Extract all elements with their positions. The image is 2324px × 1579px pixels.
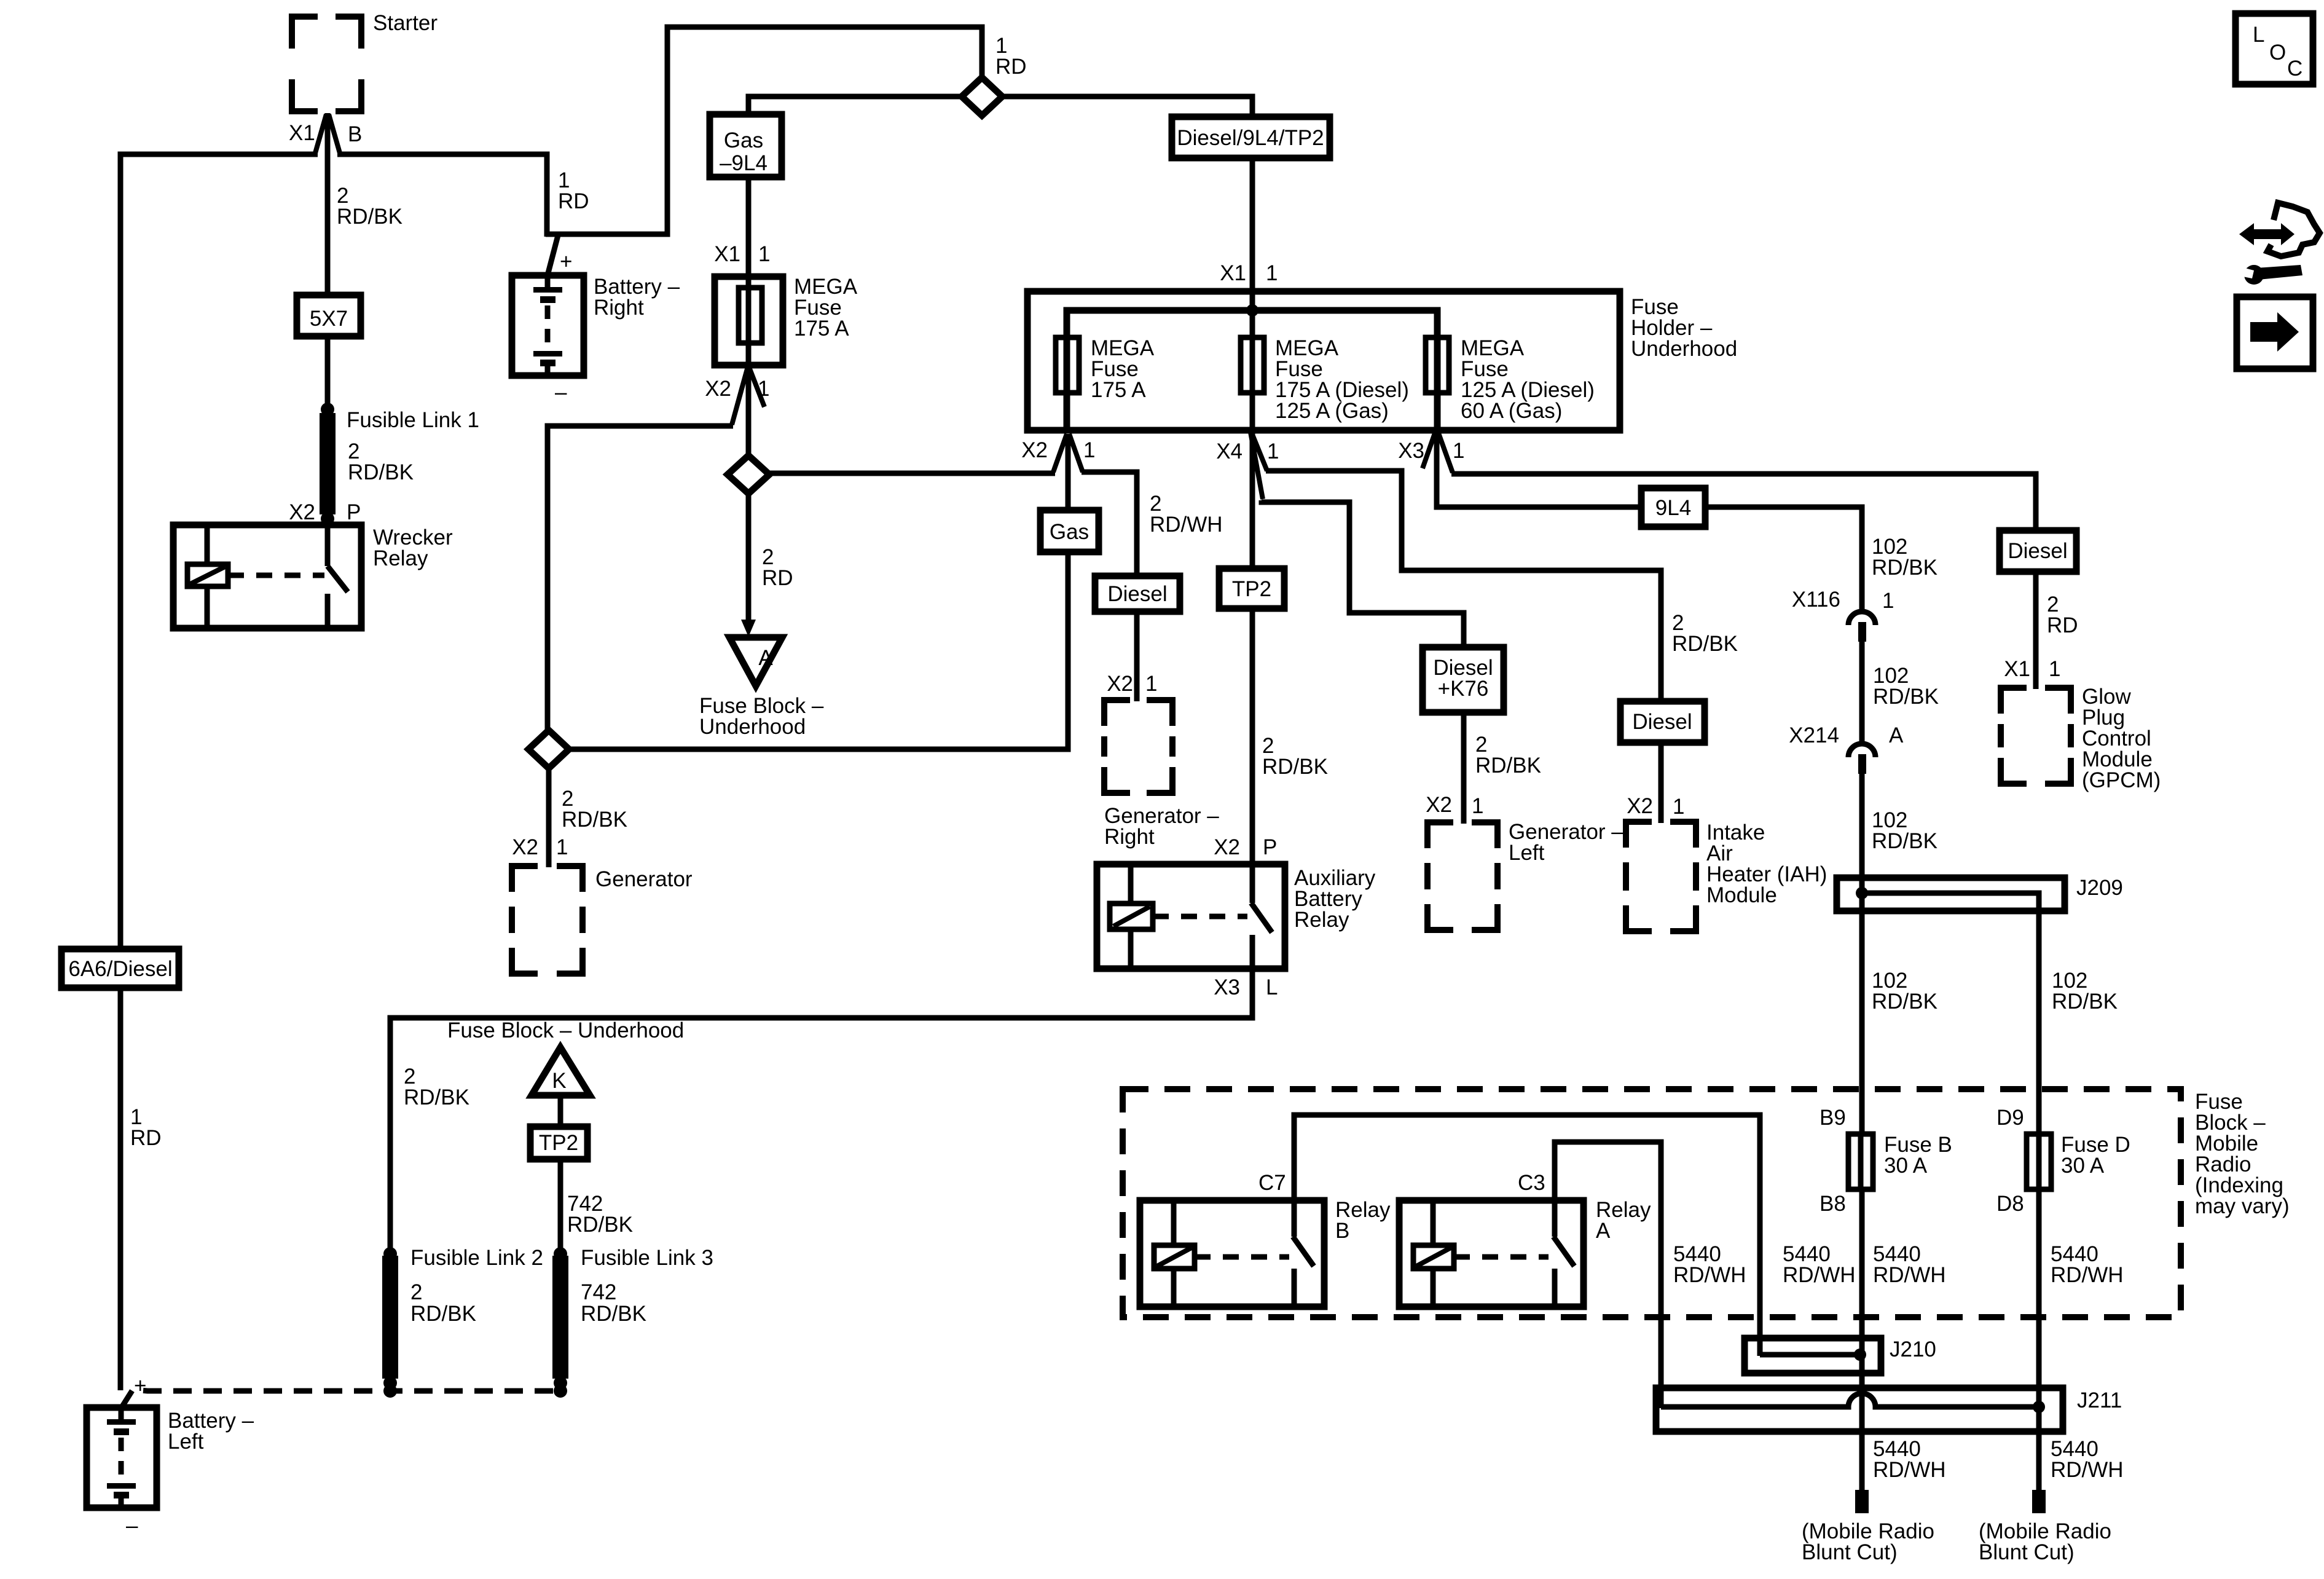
wire: starter B right branch to battery-right corner: [337, 154, 547, 237]
svg-text:RD/BK: RD/BK: [567, 1213, 633, 1237]
svg-text:RD/BK: RD/BK: [410, 1302, 476, 1326]
svg-text:Generator: Generator: [595, 867, 693, 891]
svg-text:Underhood: Underhood: [699, 715, 806, 739]
blunt cut terminal B: [1855, 1490, 1869, 1513]
box fuse holder inner: [1067, 310, 1437, 430]
svg-text:RD/BK: RD/BK: [562, 808, 627, 832]
diagnostic icon: double arrow: [2239, 223, 2295, 245]
battery right symbol: [545, 275, 551, 289]
svg-text:175 A: 175 A: [1091, 378, 1146, 402]
svg-text:K: K: [552, 1069, 566, 1093]
wire: diagonal into battery-right plus: [548, 235, 558, 275]
IAH module dashed box: [1626, 822, 1696, 931]
svg-text:Diesel: Diesel: [1632, 710, 1692, 734]
wire: fuse holder X1 feed down through fuse2: [1250, 158, 1255, 430]
svg-text:X2: X2: [1021, 438, 1048, 462]
svg-text:A: A: [1596, 1219, 1611, 1243]
wire: fuse1 X2 right leg to gen-right riser: [1082, 472, 1137, 701]
svg-text:+: +: [560, 250, 572, 274]
aux battery relay box: [1097, 864, 1285, 969]
blunt cut terminal D: [2032, 1490, 2046, 1513]
svg-text:RD/WH: RD/WH: [1873, 1263, 1946, 1287]
svg-text:RD/WH: RD/WH: [2051, 1458, 2124, 1482]
J211 junction box: [1656, 1388, 2063, 1431]
wire: Diesel(IAH) down to IAH module: [1659, 742, 1664, 823]
svg-text:1: 1: [1472, 794, 1483, 818]
svg-text:RD/BK: RD/BK: [337, 205, 402, 229]
svg-text:X214: X214: [1789, 723, 1839, 747]
svg-text:Fusible Link 2: Fusible Link 2: [410, 1246, 543, 1270]
fuse element 3 (MEGA 125/60): [1426, 337, 1449, 393]
svg-text:P: P: [347, 500, 361, 524]
svg-text:Underhood: Underhood: [1631, 337, 1737, 361]
svg-text:RD/BK: RD/BK: [1672, 632, 1738, 656]
svg-text:C7: C7: [1258, 1171, 1286, 1195]
svg-text:1: 1: [1673, 795, 1684, 819]
svg-text:Diesel/9L4/TP2: Diesel/9L4/TP2: [1177, 126, 1324, 150]
battery left box: [87, 1408, 157, 1508]
svg-text:1: 1: [1145, 672, 1157, 696]
svg-text:RD: RD: [995, 55, 1027, 79]
generator dashed box: [512, 866, 583, 974]
battery left symbol: [119, 1408, 124, 1421]
box TP2 (bottom): [530, 1127, 587, 1159]
box 9L4: [1641, 488, 1705, 527]
wire: fuse D down to blunt cut: [2036, 1189, 2042, 1490]
svg-text:6A6/Diesel: 6A6/Diesel: [68, 957, 172, 981]
svg-text:Gas: Gas: [1050, 520, 1089, 544]
wire: J211 bar with hop over fuse-B wire and junction dot at D: [1661, 1393, 2039, 1407]
svg-text:Left: Left: [1509, 841, 1545, 865]
box Diesel (GPCM chain): [2000, 530, 2076, 572]
box fuse holder underhood (outer): [1027, 291, 1620, 430]
svg-text:L: L: [1266, 975, 1278, 999]
pin arrow: X3: [1423, 431, 1453, 473]
svg-text:D9: D9: [1996, 1106, 2024, 1130]
svg-text:RD: RD: [2047, 613, 2078, 637]
svg-text:Blunt Cut): Blunt Cut): [1802, 1540, 1898, 1564]
connector X214 arc: [1848, 744, 1875, 757]
fuse element 2 (MEGA 175/125): [1241, 337, 1264, 393]
wrecker relay switch: [328, 525, 348, 628]
diamond junction (1 RD top): [962, 77, 1002, 116]
svg-text:1: 1: [1453, 439, 1464, 463]
GPCM dashed box: [2001, 688, 2071, 784]
J210 junction box: [1745, 1338, 1881, 1373]
wire: diamond1 right run to Diesel/9L4/TP2 box: [1002, 96, 1252, 118]
fusible link 1 bar: [320, 413, 336, 514]
svg-text:RD/BK: RD/BK: [404, 1085, 469, 1109]
svg-text:X2: X2: [512, 835, 538, 859]
box Diesel+K76: [1423, 647, 1504, 712]
wire: X4 first output to Diesel (IAH chain): [1266, 471, 1661, 703]
svg-text:X3: X3: [1398, 439, 1424, 463]
fuse B element: [1848, 1134, 1873, 1189]
svg-text:30 A: 30 A: [1884, 1154, 1928, 1178]
diagnostic icon: wrench: [2256, 265, 2302, 280]
pin arrow: starter B: [315, 114, 340, 153]
svg-text:RD/BK: RD/BK: [348, 460, 414, 484]
wire: relay B switch pin up and over to J210: [1294, 1115, 1760, 1356]
svg-text:RD/WH: RD/WH: [1673, 1263, 1746, 1287]
svg-text:J210: J210: [1890, 1337, 1936, 1361]
svg-text:X1: X1: [289, 121, 315, 145]
svg-text:RD: RD: [130, 1126, 162, 1150]
wire: diamond1 left run to Gas-9L4 box: [748, 96, 962, 116]
svg-text:RD/BK: RD/BK: [1872, 556, 1937, 580]
diagnostic icon: vehicle outline: [2267, 203, 2320, 256]
wrecker relay actuation dashes: [228, 573, 324, 578]
svg-text:+K76: +K76: [1438, 677, 1489, 701]
svg-text:X3: X3: [1214, 975, 1240, 999]
svg-text:Fuse Block – Underhood: Fuse Block – Underhood: [447, 1018, 684, 1042]
fusible link 2 bar: [382, 1256, 398, 1379]
wire: X116 to X214: [1859, 642, 1865, 744]
wire: into battery-left plus: [118, 1387, 124, 1390]
wire: mega fuse X2 center to diamond2: [746, 369, 752, 457]
aux relay coil branch: [1128, 864, 1134, 969]
svg-text:RD/BK: RD/BK: [1872, 990, 1937, 1014]
box Diesel (IAH chain): [1620, 701, 1705, 742]
wire: Gas-9L4 down through MEGA fuse to X2 pin: [746, 177, 752, 369]
svg-text:B9: B9: [1820, 1106, 1846, 1130]
fuse block mobile radio dashed box: [1123, 1089, 2181, 1317]
svg-text:RD/BK: RD/BK: [581, 1302, 646, 1326]
fuse element 1 (MEGA 175A): [1056, 337, 1079, 393]
svg-text:J209: J209: [2076, 876, 2123, 900]
svg-text:RD/BK: RD/BK: [1873, 685, 1939, 709]
svg-text:C: C: [2287, 57, 2302, 81]
box MEGA fuse (standalone): [715, 277, 783, 365]
svg-text:A: A: [758, 646, 773, 670]
junction dot J209: [1856, 887, 1868, 899]
svg-text:60 A (Gas): 60 A (Gas): [1461, 399, 1562, 423]
svg-text:RD/BK: RD/BK: [2052, 990, 2118, 1014]
svg-text:X2: X2: [1214, 835, 1240, 859]
svg-text:RD/BK: RD/BK: [1475, 754, 1541, 778]
svg-text:1: 1: [758, 377, 769, 401]
generator-left dashed box: [1427, 822, 1498, 930]
svg-text:D8: D8: [1996, 1192, 2024, 1216]
wire: battery-right plus junction, 1RD riser, top run to diamond: [546, 27, 982, 234]
connector X116 arc: [1848, 612, 1875, 625]
J209 junction box: [1837, 878, 2065, 911]
dashed battery equalize wire: [122, 1390, 560, 1406]
wire: J209 bar to fuse D riser: [1862, 893, 2039, 1135]
relay A switch: [1553, 1200, 1574, 1307]
arrowhead into triangle A: [741, 620, 756, 637]
aux relay actuation dashes: [1153, 914, 1247, 919]
svg-text:Right: Right: [594, 296, 644, 320]
wire: 9L4 box to X116 riser: [1706, 507, 1862, 612]
svg-text:175 A: 175 A: [794, 317, 849, 341]
box Gas -9L4: [710, 114, 782, 177]
svg-text:X116: X116: [1792, 588, 1840, 612]
wire: X214 down through J209 to fuse B: [1859, 774, 1865, 1135]
svg-text:X2: X2: [1107, 672, 1133, 696]
svg-text:P: P: [1263, 835, 1277, 859]
relay A coil branch: [1431, 1200, 1436, 1307]
svg-text:C3: C3: [1518, 1171, 1545, 1195]
svg-text:RD/WH: RD/WH: [1873, 1458, 1946, 1482]
wire: diamond2 right to fuse1-X2 leg junction: [769, 471, 1055, 476]
svg-text:1: 1: [1882, 589, 1894, 613]
svg-text:X1: X1: [714, 242, 740, 266]
relay B coil: [1154, 1245, 1195, 1269]
svg-text:Fusible Link 3: Fusible Link 3: [581, 1246, 713, 1270]
wire: X3 right leg horizontal to Diesel (GPCM chain): [1451, 474, 2036, 532]
svg-text:30 A: 30 A: [2061, 1154, 2105, 1178]
svg-text:Diesel: Diesel: [2008, 539, 2067, 563]
triangle A (fuse block underhood): [729, 637, 782, 686]
svg-text:5X7: 5X7: [310, 307, 348, 331]
battery right box: [512, 275, 584, 376]
svg-text:742: 742: [581, 1280, 616, 1304]
svg-text:1: 1: [2049, 657, 2060, 681]
svg-text:RD/WH: RD/WH: [1150, 513, 1223, 537]
relay A box: [1399, 1200, 1584, 1307]
connector X116 tab: [1858, 622, 1866, 642]
connector X214 tab: [1858, 754, 1866, 774]
svg-text:1: 1: [1267, 439, 1279, 463]
svg-text:RD/BK: RD/BK: [1262, 755, 1328, 779]
box Diesel/9L4/TP2: [1172, 117, 1330, 158]
svg-text:X4: X4: [1216, 439, 1242, 463]
aux relay switch: [1251, 864, 1272, 969]
pin arrow: X4: [1250, 431, 1267, 499]
pin arrow: fuse1 X2: [1053, 434, 1083, 472]
wire: fuse B down through J210/J211 to blunt cut: [1859, 1189, 1865, 1490]
fusible link 3 bar: [552, 1256, 568, 1379]
svg-text:X2: X2: [1426, 793, 1452, 817]
svg-text:(GPCM): (GPCM): [2082, 768, 2161, 792]
svg-text:125 A (Gas): 125 A (Gas): [1275, 399, 1389, 423]
svg-text:Gas: Gas: [724, 128, 763, 152]
wire: triangle K to TP2 to fusible link 3: [558, 1095, 563, 1254]
wrecker relay coil: [187, 564, 228, 586]
svg-text:L: L: [2253, 23, 2264, 47]
svg-text:B: B: [1335, 1219, 1349, 1243]
aux relay coil: [1110, 904, 1153, 929]
wire: J210 bar with junction dot: [1760, 1352, 1860, 1358]
wrecker relay box: [173, 525, 361, 628]
svg-text:X2: X2: [1627, 794, 1653, 818]
relay B box: [1140, 1200, 1324, 1307]
svg-text:RD/WH: RD/WH: [2051, 1263, 2124, 1287]
wire: Diesel(GPCM) down to GPCM module: [2033, 572, 2039, 689]
wire: fuse1 X2 center down through Gas box to diamond3 horizontal: [568, 434, 1068, 749]
svg-text:X1: X1: [1220, 261, 1246, 285]
svg-text:X2: X2: [705, 377, 731, 401]
svg-text:1: 1: [556, 835, 568, 859]
svg-text:–: –: [555, 380, 567, 404]
svg-text:Starter: Starter: [373, 11, 438, 35]
wire: aux relay X3/L out, long run left, down to fusible link 2: [390, 969, 1252, 1254]
svg-text:1: 1: [1266, 261, 1278, 285]
svg-text:TP2: TP2: [539, 1131, 578, 1155]
svg-text:Relay: Relay: [1294, 908, 1349, 932]
wire: X2 horizontal to left riser down to diamond3: [548, 426, 733, 732]
svg-text:J211: J211: [2077, 1388, 2122, 1412]
svg-text:Diesel: Diesel: [1107, 582, 1167, 606]
svg-text:1: 1: [1083, 438, 1095, 462]
box 5X7: [297, 295, 361, 336]
svg-text:RD/BK: RD/BK: [1872, 829, 1937, 853]
svg-text:X1: X1: [2004, 657, 2030, 681]
pin arrow: mega fuse X2: [732, 369, 764, 425]
wire: relay A switch pin up and over to J211: [1555, 1142, 1661, 1408]
relay B actuation dashes: [1195, 1254, 1289, 1260]
svg-text:Fusible Link 1: Fusible Link 1: [347, 408, 479, 432]
wire: X3 center down then right to 9L4: [1437, 431, 1643, 507]
junction dot X1 inner box: [1246, 304, 1258, 317]
box Gas: [1040, 510, 1099, 552]
wire: X4 center down through TP2 to aux relay: [1250, 431, 1255, 865]
svg-text:B: B: [348, 122, 362, 146]
fuse D element: [2027, 1134, 2051, 1189]
box 6A6/Diesel: [61, 949, 179, 988]
arrow box: [2237, 297, 2313, 369]
svg-text:+: +: [134, 1374, 146, 1398]
svg-text:1: 1: [758, 242, 770, 266]
relay A coil: [1413, 1245, 1454, 1269]
svg-text:RD: RD: [558, 189, 589, 213]
diamond junction (left, 2 RD/BK): [528, 730, 569, 768]
svg-text:RD: RD: [762, 566, 793, 590]
svg-text:Left: Left: [168, 1430, 204, 1454]
generator-right dashed box: [1104, 700, 1172, 793]
svg-text:TP2: TP2: [1232, 577, 1271, 601]
svg-text:may vary): may vary): [2195, 1194, 2290, 1218]
svg-text:B8: B8: [1820, 1192, 1846, 1216]
starter dashed box: [292, 17, 361, 111]
svg-text:O: O: [2269, 41, 2286, 65]
LOC box: [2236, 14, 2313, 84]
svg-text:–9L4: –9L4: [720, 151, 767, 175]
svg-text:Module: Module: [1706, 883, 1777, 907]
wrecker relay coil branch: [205, 525, 210, 628]
svg-text:9L4: 9L4: [1655, 496, 1691, 520]
svg-text:Right: Right: [1104, 825, 1155, 849]
relay A actuation dashes: [1454, 1254, 1549, 1260]
arrow glyph: [2250, 312, 2299, 352]
svg-text:–: –: [126, 1514, 138, 1538]
wire: starter pin center line down through 5X7 to wrecker relay: [325, 113, 331, 526]
svg-text:A: A: [1889, 723, 1904, 747]
wire: diamond2 down to triangle A: [746, 492, 752, 628]
wire: diamond3 down to generator: [546, 766, 552, 867]
box Diesel (gen-right chain): [1095, 576, 1180, 612]
svg-text:2: 2: [410, 1280, 422, 1304]
wire: Diesel+K76 down to generator-left: [1461, 712, 1467, 824]
box TP2 (X4 chain): [1219, 569, 1284, 608]
relay B switch: [1293, 1200, 1314, 1307]
svg-text:X2: X2: [289, 500, 315, 524]
svg-text:RD/WH: RD/WH: [1783, 1263, 1856, 1287]
fuse element (standalone mega fuse): [739, 288, 762, 343]
wire: X4 second output to Diesel+K76: [1262, 500, 1464, 648]
relay B coil branch: [1171, 1200, 1177, 1307]
wire: starter B left branch to far-left riser: [120, 154, 318, 1387]
svg-text:Relay: Relay: [373, 546, 428, 570]
diamond junction (center, 2 RD): [728, 455, 769, 494]
svg-text:Blunt Cut): Blunt Cut): [1979, 1540, 2075, 1564]
triangle K (fuse block underhood): [532, 1047, 590, 1095]
